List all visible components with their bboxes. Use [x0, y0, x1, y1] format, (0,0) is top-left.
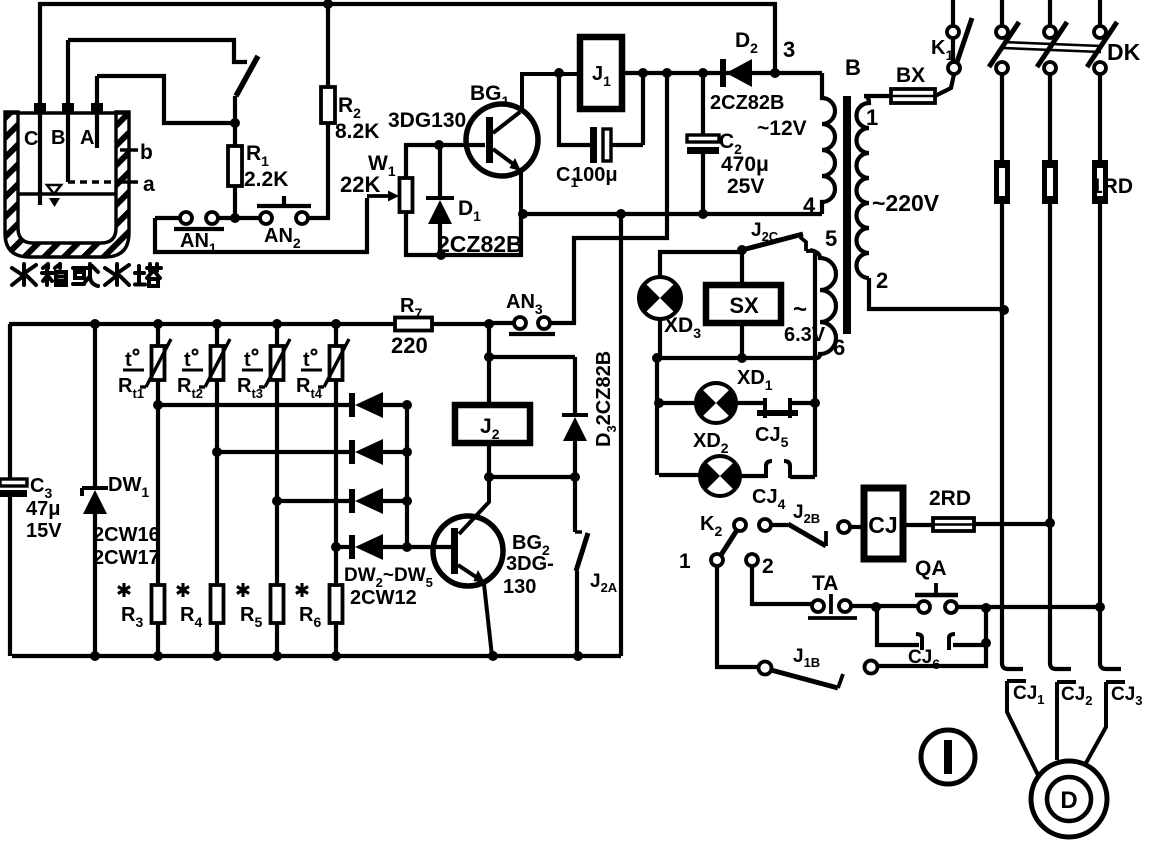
svg-text:25V: 25V	[727, 175, 764, 198]
svg-text:C: C	[24, 128, 38, 150]
svg-text:1RD: 1RD	[1091, 175, 1133, 198]
svg-text:QA: QA	[915, 557, 947, 580]
svg-text:47μ: 47μ	[26, 498, 60, 520]
svg-text:BX: BX	[896, 64, 925, 87]
svg-text:2RD: 2RD	[929, 487, 971, 510]
svg-text:t: t	[184, 349, 191, 371]
svg-text:3DG130: 3DG130	[388, 109, 466, 132]
svg-text:8.2K: 8.2K	[335, 120, 379, 143]
svg-text:t: t	[303, 349, 310, 371]
svg-text:6: 6	[833, 335, 845, 360]
svg-text:D: D	[1060, 787, 1077, 814]
svg-text:DK: DK	[1107, 39, 1141, 65]
svg-text:2: 2	[876, 268, 888, 293]
svg-text:3: 3	[783, 37, 795, 62]
svg-text:2CW17: 2CW17	[93, 547, 160, 569]
svg-text:15V: 15V	[26, 520, 62, 542]
svg-text:2.2K: 2.2K	[244, 168, 288, 191]
svg-text:3DG-: 3DG-	[506, 553, 554, 575]
svg-text:4: 4	[803, 193, 816, 218]
svg-text:22K: 22K	[340, 172, 380, 197]
svg-text:A: A	[80, 127, 94, 149]
svg-text:2: 2	[762, 555, 774, 578]
svg-text:130: 130	[503, 576, 536, 598]
svg-text:1: 1	[866, 105, 878, 130]
svg-text:100μ: 100μ	[572, 164, 618, 186]
svg-text:~: ~	[793, 296, 807, 323]
svg-text:6.3V: 6.3V	[784, 324, 826, 346]
svg-text:CJ: CJ	[868, 512, 897, 538]
svg-text:B: B	[845, 55, 861, 80]
svg-text:a: a	[143, 173, 155, 196]
svg-text:~12V: ~12V	[757, 117, 807, 140]
svg-text:TA: TA	[812, 572, 838, 595]
svg-text:2CW16: 2CW16	[93, 524, 160, 546]
svg-text:470μ: 470μ	[721, 153, 769, 176]
svg-text:t: t	[244, 349, 251, 371]
svg-text:2CW12: 2CW12	[350, 587, 417, 609]
svg-text:SX: SX	[729, 293, 759, 318]
svg-text:B: B	[51, 127, 65, 149]
svg-text:t: t	[125, 349, 132, 371]
svg-text:~220V: ~220V	[872, 190, 940, 216]
svg-text:220: 220	[391, 333, 428, 358]
svg-text:1: 1	[679, 550, 691, 573]
svg-text:b: b	[140, 141, 153, 164]
svg-text:2CZ82B: 2CZ82B	[437, 231, 523, 257]
svg-text:2CZ82B: 2CZ82B	[710, 92, 784, 114]
svg-text:5: 5	[825, 226, 837, 251]
